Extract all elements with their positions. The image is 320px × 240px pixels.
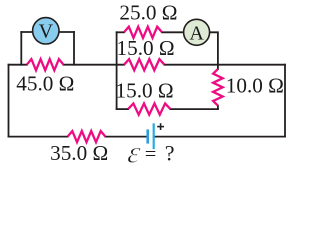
- label EMF script E: [126, 134, 144, 169]
- wire: top branch left segment: [117, 31, 124, 33]
- svg-text:10.0 Ω: 10.0 Ω: [226, 74, 284, 98]
- svg-text:?: ?: [165, 140, 175, 165]
- voltmeter V: [33, 18, 59, 44]
- wire: outer left edge: [8, 65, 10, 137]
- svg-text:35.0 Ω: 35.0 Ω: [50, 141, 108, 165]
- battery positive plate: [153, 123, 155, 149]
- wire: top branch R25 to ammeter: [162, 31, 184, 33]
- wire: voltmeter bridge right vertical: [73, 32, 75, 65]
- resistor R45 45.0 ohm: [27, 59, 64, 70]
- svg-text:15.0 Ω: 15.0 Ω: [117, 36, 175, 60]
- wire: bottom branch right segment: [170, 108, 218, 110]
- wire: middle row R15m to node B: [164, 64, 218, 66]
- resistor R15a 15.0 ohm middle branch: [124, 59, 164, 70]
- svg-text:45.0 Ω: 45.0 Ω: [16, 72, 74, 96]
- wire: outer right edge: [284, 65, 286, 137]
- wire: middle box left edge: [116, 32, 118, 109]
- wire: ammeter to top-right corner: [210, 32, 218, 69]
- svg-text:15.0 Ω: 15.0 Ω: [116, 79, 174, 103]
- wire: left segment of middle row to R45: [9, 64, 27, 66]
- svg-text:V: V: [39, 20, 54, 42]
- battery negative plate: [146, 129, 149, 143]
- wire: bottom between resistor R35 and battery: [105, 136, 147, 138]
- svg-text:A: A: [189, 23, 204, 45]
- resistor R25 25.0 ohm: [124, 27, 162, 38]
- ammeter A: [184, 19, 210, 45]
- wire: node B to outer right edge: [218, 64, 285, 66]
- wire: bottom branch of middle box left segment: [117, 108, 129, 110]
- resistor R10 10.0 ohm vertical: [213, 69, 223, 106]
- wire: outer bottom left segment: [9, 136, 68, 138]
- wire: bottom between battery and right edge: [154, 136, 285, 138]
- wire: right edge below R10 to bottom branch: [217, 106, 219, 110]
- resistor R35 35.0 ohm: [68, 131, 106, 142]
- svg-text:=: =: [145, 143, 157, 165]
- svg-text:25.0 Ω: 25.0 Ω: [119, 0, 177, 24]
- battery plus sign: [157, 123, 164, 130]
- resistor R15b 15.0 ohm bottom branch: [128, 104, 170, 115]
- wire: R45 to middle box left edge (node A): [64, 64, 125, 66]
- wire: voltmeter bridge top: [21, 31, 74, 33]
- wire: voltmeter bridge left vertical: [20, 32, 22, 65]
